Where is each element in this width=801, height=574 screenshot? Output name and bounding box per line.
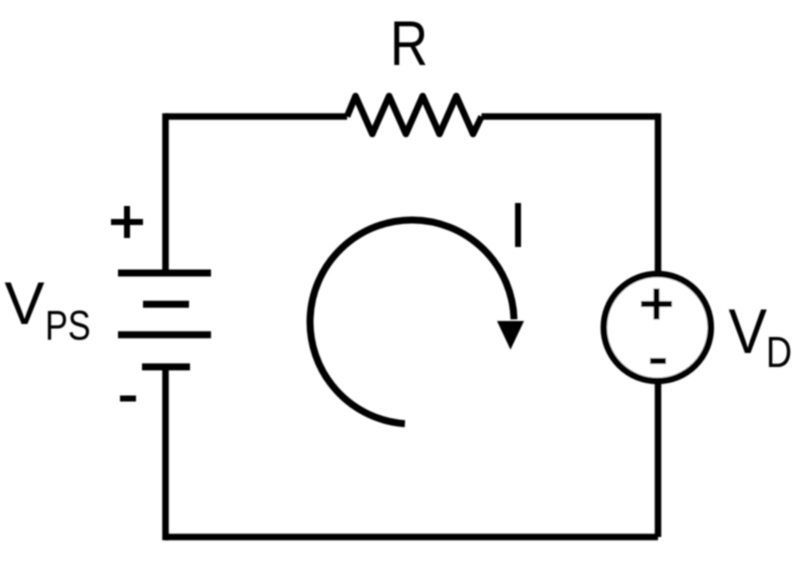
battery VPS (power supply, 4 plates) (118, 273, 211, 367)
label + (battery positive terminal) (111, 206, 143, 238)
wire bottom (166, 534, 659, 541)
current loop arrow I (clockwise arc) (310, 220, 514, 424)
svg-text:V: V (729, 297, 768, 367)
voltage source VD (circle with polarity marks) (604, 274, 711, 381)
svg-text:I: I (509, 189, 527, 261)
current loop arrowhead (497, 321, 524, 350)
wire top (from battery + terminal to resistor, and resistor to VD top) (166, 113, 659, 120)
svg-text:D: D (766, 328, 792, 377)
wire left top (top-left corner down to battery top plate) (162, 113, 169, 273)
svg-text:R: R (390, 9, 428, 79)
svg-text:V: V (5, 270, 45, 337)
svg-text:PS: PS (45, 302, 91, 349)
wire right bottom (VD circle down to bottom-right corner) (655, 381, 662, 537)
wire left bottom (battery bottom plate down to bottom-left corner) (162, 367, 169, 540)
label - (battery negative terminal) (120, 396, 136, 402)
resistor R (zigzag) (347, 96, 481, 134)
wire right top (top-right corner down to VD circle) (655, 113, 662, 274)
